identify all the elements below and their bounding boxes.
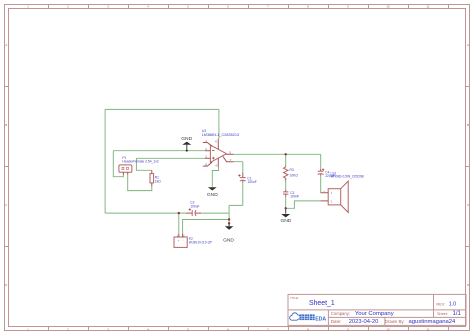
svg-text:C: C <box>5 203 7 207</box>
wire op-amp pin4 to ground flag <box>212 167 218 186</box>
svg-text:HeaderFemale 2.54_1x2: HeaderFemale 2.54_1x2 <box>122 160 158 164</box>
svg-text:1.0: 1.0 <box>449 301 457 307</box>
EasyEDA logo <box>290 313 327 322</box>
capacitor C4 <box>318 169 335 179</box>
svg-text:B: B <box>467 123 469 127</box>
capacitor C2 <box>186 200 201 216</box>
wire P1 pin2 to R1 bottom <box>128 175 152 191</box>
svg-text:SPK8Ω-0.5W_C05298: SPK8Ω-0.5W_C05298 <box>331 175 364 179</box>
wire P2 pin2 to GND rail <box>183 220 230 234</box>
svg-text:10KΩ: 10KΩ <box>290 173 299 177</box>
ground flag below op-amp pin4 <box>207 187 218 198</box>
svg-text:LM386N-1_C2835213: LM386N-1_C2835213 <box>202 133 239 137</box>
svg-text:WJ301V-5.0-2P: WJ301V-5.0-2P <box>189 241 213 245</box>
ground flag at main GND junction <box>223 223 234 243</box>
wire speaker return to ground junction <box>286 201 321 208</box>
title block <box>288 294 466 325</box>
wire non-inverting input net from R1 top <box>136 158 205 170</box>
svg-text:B: B <box>5 123 7 127</box>
wire R3 C3 branch <box>285 154 287 208</box>
svg-text:11: 11 <box>427 4 430 8</box>
junction GND flag attach <box>228 222 230 224</box>
svg-text:-: - <box>183 238 184 242</box>
svg-text:Company:: Company: <box>331 311 350 316</box>
wire inverting input net from P1 pin1 <box>113 151 205 177</box>
capacitor C3 <box>283 190 299 199</box>
svg-text:11: 11 <box>427 327 430 331</box>
svg-text:Date:: Date: <box>331 319 342 324</box>
ground flag above inverting input wire <box>181 136 192 151</box>
svg-text:A: A <box>467 43 469 47</box>
svg-text:2023-04-20: 2023-04-20 <box>349 319 379 325</box>
junction output to R3 branch <box>285 153 287 155</box>
svg-text:EDA: EDA <box>315 316 326 322</box>
connector P2 <box>174 234 213 248</box>
ground flag under C3 speaker branch <box>280 208 291 224</box>
svg-text:C: C <box>467 203 469 207</box>
svg-text:GND: GND <box>207 192 218 198</box>
svg-text:100nF: 100nF <box>290 194 299 198</box>
svg-text:Your Company: Your Company <box>355 311 394 317</box>
junction P2 positive on VS rail <box>178 212 180 214</box>
svg-text:Sheet_1: Sheet_1 <box>309 300 335 307</box>
svg-text:GND: GND <box>181 136 192 142</box>
svg-text:100uF: 100uF <box>247 180 256 184</box>
svg-text:10: 10 <box>386 4 390 8</box>
connector P1 <box>119 156 159 175</box>
resistor R1 <box>150 170 161 186</box>
junction P2 negative wire at GND column <box>228 218 230 220</box>
svg-text:A: A <box>5 43 7 47</box>
wire VS net: top rail, left rail and bottom rail to C2 <box>105 109 219 233</box>
svg-text:Sheet:: Sheet: <box>437 312 448 316</box>
op-amp U1 <box>202 129 239 168</box>
resistor R3 <box>284 166 299 181</box>
svg-text:agustinmagana24: agustinmagana24 <box>409 319 457 325</box>
svg-text:100uF: 100uF <box>190 204 199 208</box>
svg-text:REV:: REV: <box>436 301 445 306</box>
junction C3 bottom speaker return <box>285 207 287 209</box>
svg-text:GND: GND <box>223 238 234 244</box>
svg-text:1kΩ: 1kΩ <box>155 180 161 184</box>
speaker LS1 <box>321 171 364 212</box>
svg-text:R3: R3 <box>290 168 294 172</box>
svg-text:10: 10 <box>386 327 390 331</box>
capacitor C1 <box>238 173 257 185</box>
svg-text:D: D <box>467 283 469 287</box>
svg-text:D: D <box>5 283 7 287</box>
svg-text:1/1: 1/1 <box>453 311 462 317</box>
wire GND segment right of C2 <box>201 212 229 214</box>
svg-text:TITLE:: TITLE: <box>290 296 299 300</box>
svg-text:Drawn By:: Drawn By: <box>385 319 405 324</box>
wire output net from pin5 to C4 <box>234 154 321 193</box>
wire bypass branch from pin7 through C1 down to GND <box>229 162 243 227</box>
svg-text:GND: GND <box>280 218 291 224</box>
